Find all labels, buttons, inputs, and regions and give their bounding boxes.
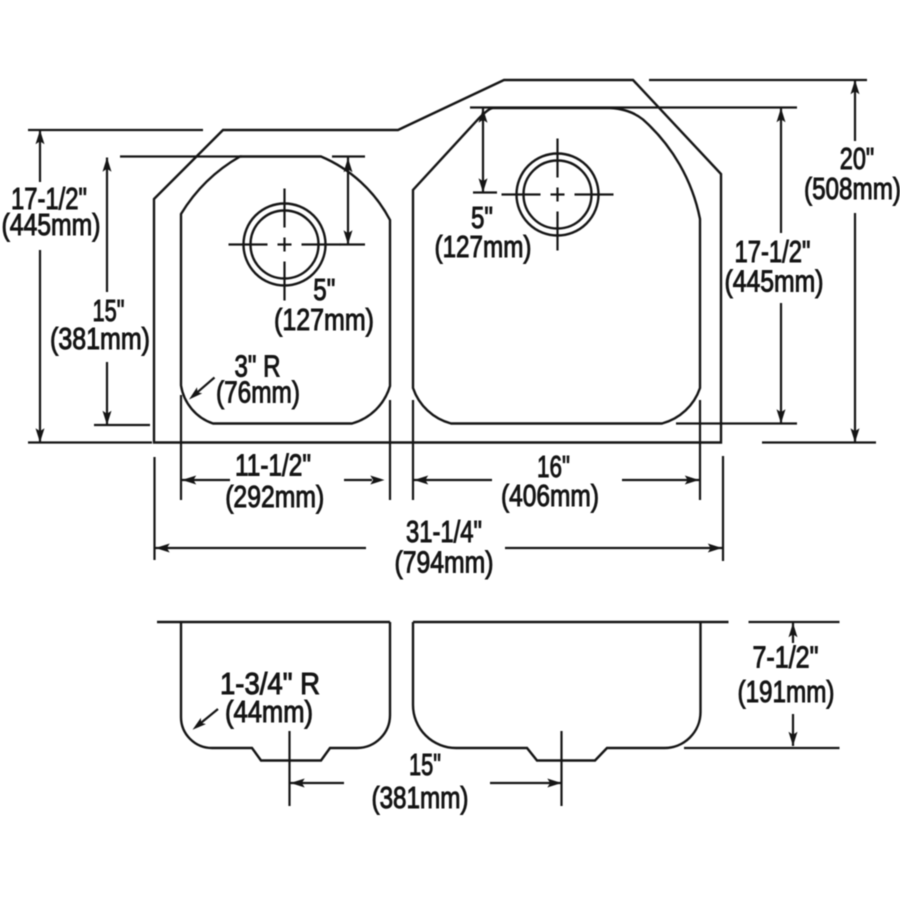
svg-text:(445mm): (445mm) <box>725 264 824 299</box>
svg-text:7-1/2": 7-1/2" <box>753 640 819 675</box>
svg-text:(127mm): (127mm) <box>435 229 532 264</box>
svg-text:15": 15" <box>409 747 441 782</box>
svg-text:(508mm): (508mm) <box>804 171 900 206</box>
svg-text:(381mm): (381mm) <box>372 780 469 815</box>
svg-text:(381mm): (381mm) <box>50 321 150 356</box>
svg-text:(406mm): (406mm) <box>501 478 599 513</box>
svg-text:(44mm): (44mm) <box>225 694 313 729</box>
svg-text:(127mm): (127mm) <box>274 302 374 337</box>
svg-text:(292mm): (292mm) <box>225 479 324 514</box>
svg-text:(191mm): (191mm) <box>738 674 835 709</box>
svg-text:(76mm): (76mm) <box>216 375 300 410</box>
svg-text:(794mm): (794mm) <box>395 545 494 580</box>
svg-text:(445mm): (445mm) <box>2 207 101 242</box>
svg-text:11-1/2": 11-1/2" <box>235 448 311 483</box>
